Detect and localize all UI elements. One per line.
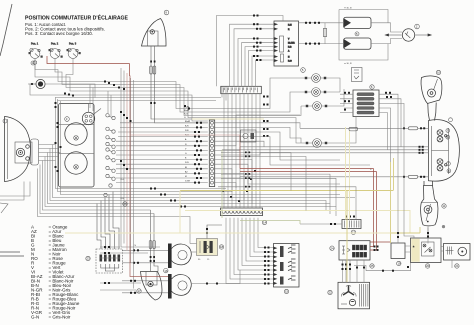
svg-text:▲ 30, IX: ▲ 30, IX: [344, 62, 352, 65]
rear brake fluid reservoir: [421, 76, 442, 121]
svg-text:BI-AZR: BI-AZR: [288, 42, 295, 45]
flasher relay small: [352, 68, 363, 82]
svg-text:AZ: AZ: [185, 170, 188, 173]
wire headlight bus verticals: [38, 97, 356, 244]
CDI unit connector: [342, 220, 361, 229]
left hand switch block: [274, 244, 300, 288]
label 7: [446, 129, 450, 133]
horn H1: [168, 244, 191, 269]
svg-text:2: 2: [416, 25, 418, 29]
wire regulator-relay-motor links: [405, 246, 444, 252]
wire red bundle left: [130, 76, 168, 277]
label 12b: [355, 32, 359, 36]
svg-text:N: N: [185, 144, 187, 146]
label 6: [370, 85, 374, 89]
svg-text:R-B: R-B: [185, 130, 189, 132]
wire switch trio outputs: [35, 58, 300, 108]
svg-text:G-N: G-N: [31, 314, 39, 319]
cooling fan unit: [338, 282, 370, 309]
wire horn feeds: [122, 249, 168, 251]
wire labels mid: [184, 106, 190, 120]
svg-text:B: B: [185, 158, 187, 160]
flasher unit: [28, 79, 95, 97]
svg-text:A: A: [185, 138, 187, 141]
svg-text:24: 24: [330, 246, 334, 250]
svg-text:22: 22: [328, 291, 332, 295]
wire headlight leads: [39, 144, 56, 146]
spark plug: [386, 29, 432, 41]
svg-text:V: V: [288, 39, 290, 41]
warning lamp 4: [301, 139, 332, 148]
svg-text:N: N: [288, 57, 290, 59]
rear turn signal lower: [421, 181, 438, 226]
junction dots left bundle: [120, 111, 132, 170]
wire coil feeds: [299, 22, 344, 24]
wire right verticals to relays: [398, 128, 452, 268]
ignition coil 1: [344, 17, 372, 28]
svg-text:15: 15: [207, 259, 210, 261]
connector strip dash: [209, 120, 214, 187]
label 18: [219, 245, 223, 249]
svg-text:G: G: [185, 153, 187, 155]
junction dots dash harness: [194, 122, 202, 184]
junction dots headlight bus: [55, 102, 187, 208]
diagnostic connector: [241, 130, 257, 142]
junction dots bus: [64, 81, 190, 110]
wire tail feeds: [300, 127, 429, 129]
wires main loom verticals: [224, 94, 260, 208]
svg-text:Pos. 3: Contact avec borgne 16: Pos. 3: Contact avec borgne 16/30.: [25, 31, 93, 36]
wire flasher branch: [30, 84, 208, 121]
wire red feeds regulator: [370, 169, 374, 247]
ignition coil 2: [344, 38, 372, 49]
junction dots loom: [222, 96, 269, 203]
svg-text:5: 5: [302, 68, 304, 72]
svg-text:6: 6: [371, 85, 373, 89]
connector strip lower: [221, 208, 263, 216]
wire headlight bottom leads: [0, 182, 30, 197]
horn H2: [168, 274, 191, 299]
voltage regulator box: [391, 243, 405, 259]
wires dash harness rows: [116, 123, 208, 183]
svg-text:BI-AZ: BI-AZ: [185, 120, 191, 123]
label 17: [137, 289, 141, 293]
svg-text:Pos. 2: Pos. 2: [51, 43, 59, 46]
label 14: [262, 220, 266, 224]
title block: [25, 14, 128, 37]
svg-text:A: A: [288, 50, 290, 53]
wires strip to switch block: [226, 218, 274, 284]
svg-text:R-N: R-N: [185, 162, 189, 164]
wire brake lever down: [151, 46, 208, 119]
legend: [31, 224, 80, 319]
wire coil HT to plug: [371, 23, 402, 32]
page edge mark top-left: [0, 4, 12, 56]
headlight: [5, 117, 39, 182]
connector pills brake: [150, 66, 153, 74]
svg-text:18: 18: [220, 245, 224, 249]
wire CDI feed: [300, 223, 342, 225]
svg-text:21: 21: [455, 264, 459, 268]
starter motor: [444, 244, 471, 261]
svg-text:R-G: R-G: [184, 114, 188, 116]
wire coil top rail: [339, 10, 388, 23]
wire relay feed: [190, 243, 197, 245]
svg-text:15: 15: [285, 290, 289, 294]
svg-text:V-GR: V-GR: [185, 181, 190, 183]
inline connector: [349, 127, 358, 131]
svg-text:POSITION COMMUTATEUR D'ÉCLAIRA: POSITION COMMUTATEUR D'ÉCLAIRAGE: [25, 14, 128, 22]
svg-text:M: M: [185, 176, 187, 178]
label 11: [442, 204, 446, 208]
wire yellow verticals right: [390, 162, 392, 243]
svg-text:R-G: R-G: [121, 179, 125, 181]
svg-text:N: N: [135, 245, 137, 247]
svg-text:10: 10: [437, 71, 441, 75]
label 24: [330, 246, 334, 250]
svg-text:R-N: R-N: [288, 25, 292, 27]
svg-text:23: 23: [86, 257, 90, 261]
rear brake switch lever: [141, 272, 163, 301]
label 3: [65, 117, 70, 122]
warning lamp 2: [300, 88, 331, 97]
svg-text:▼ 30, IX: ▼ 30, IX: [344, 7, 352, 10]
page edge mark bottom-left: [0, 203, 8, 213]
front brake switch lever: [142, 19, 167, 47]
label 26: [123, 202, 127, 206]
ignition key switch block: [274, 21, 299, 66]
label 10: [436, 70, 440, 74]
wire red2 bundle left: [126, 73, 128, 251]
wire top cross bus: [56, 97, 222, 99]
svg-text:Pos. 1: Pos. 1: [31, 43, 39, 46]
svg-text:16: 16: [164, 269, 168, 273]
wire red from switch: [47, 56, 130, 64]
wire ignition feeds nested: [217, 16, 284, 87]
svg-text:14: 14: [263, 221, 267, 225]
svg-text:26: 26: [123, 202, 127, 206]
wire warning lamp links: [331, 78, 356, 143]
label 4: [31, 61, 35, 65]
svg-text:5: 5: [356, 32, 358, 36]
svg-text:= Gris-Noir: = Gris-Noir: [49, 314, 71, 319]
fuse box: [353, 90, 379, 117]
label 8: [447, 162, 451, 166]
svg-text:25: 25: [370, 264, 374, 268]
wire yellow fan feed: [346, 191, 348, 283]
svg-text:9: 9: [165, 11, 167, 15]
turn relay: [197, 239, 218, 262]
label 12: [164, 10, 169, 15]
generator connector box: [339, 241, 370, 260]
light switch position detail Pos.2: [49, 43, 63, 59]
dash lamp sockets: [104, 114, 115, 197]
right hand switch connector block: [96, 192, 123, 274]
label 21: [455, 264, 459, 268]
wire fuse box leads: [340, 94, 404, 177]
wire rear brake switch: [150, 210, 152, 272]
wire labels dash harness: [185, 120, 191, 183]
svg-text:BI-AZ: BI-AZ: [184, 109, 190, 112]
label 5: [301, 68, 306, 73]
wire red mid horizontals: [240, 168, 374, 170]
svg-text:30: 30: [198, 259, 201, 261]
wire yellow loop: [180, 190, 394, 192]
label 2: [415, 24, 420, 29]
wire green lead: [222, 150, 300, 224]
svg-text:Pos. 3: Pos. 3: [69, 43, 77, 46]
svg-text:BI-AZ: BI-AZ: [184, 106, 190, 109]
junction dots ignition feeds: [253, 15, 262, 62]
instrument cluster: [59, 104, 95, 188]
svg-text:3: 3: [66, 117, 68, 121]
ignition switch: [82, 104, 101, 125]
wire left vertical bundle: [121, 68, 160, 289]
warning lamp 1: [300, 74, 331, 83]
wire fan feeds: [343, 260, 367, 282]
label 22: [328, 290, 332, 294]
svg-text:20: 20: [426, 264, 430, 268]
svg-text:BI: BI: [185, 167, 187, 169]
wire coil bottom rail: [339, 10, 388, 61]
light switch position detail Pos.3: [67, 43, 81, 59]
label 13: [351, 230, 355, 234]
svg-text:R-N: R-N: [121, 198, 125, 200]
starter relay: [411, 238, 442, 263]
svg-text:17: 17: [137, 289, 141, 293]
wire bottom-left stubs: [0, 247, 148, 290]
svg-text:11: 11: [442, 204, 445, 208]
resistor coil: [324, 23, 326, 44]
svg-text:R-B: R-B: [288, 47, 292, 49]
label 19: [397, 261, 401, 265]
light switch position detail Pos.1: [29, 43, 43, 65]
label 16: [164, 268, 168, 272]
warning lamp 3: [301, 102, 332, 111]
label 20: [425, 264, 429, 268]
label 15: [284, 289, 288, 293]
svg-text:V: V: [185, 148, 187, 150]
svg-text:R-G: R-G: [288, 61, 292, 63]
label headlight: [3, 119, 7, 123]
main connector strip upper: [221, 86, 261, 93]
svg-text:B-N: B-N: [185, 125, 189, 127]
wire mid-right horizontals: [215, 115, 370, 204]
wire dash stems: [89, 85, 91, 109]
label 23: [86, 256, 90, 260]
wire mid extra horizontals: [218, 153, 356, 220]
svg-text:19: 19: [397, 262, 401, 266]
svg-text:R: R: [288, 29, 290, 31]
svg-text:R: R: [370, 169, 372, 171]
label 25: [370, 264, 374, 268]
tail light assembly: [429, 120, 460, 182]
